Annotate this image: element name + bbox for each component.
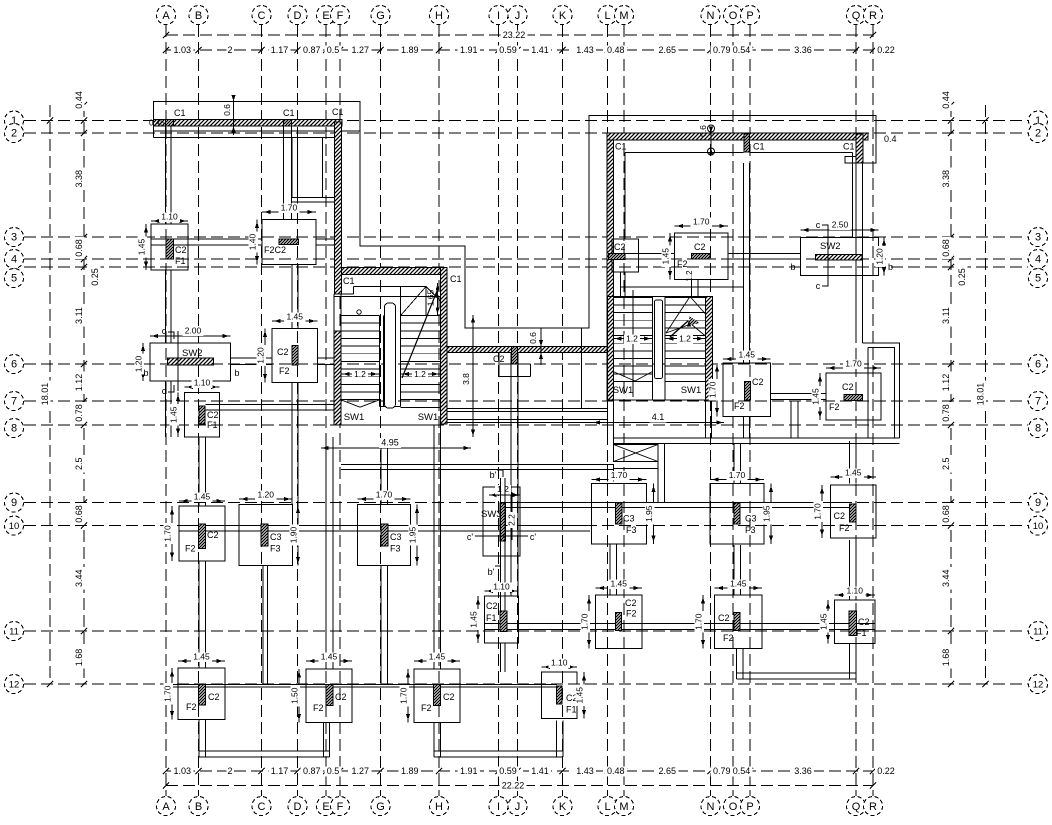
footing U2 bottom mid xyxy=(433,723,435,758)
dimension chain right overall 18.01 xyxy=(985,105,987,684)
svg-text:1.45: 1.45 xyxy=(661,248,671,265)
svg-text:c: c xyxy=(816,281,821,291)
svg-text:F1: F1 xyxy=(566,705,577,715)
svg-text:b: b xyxy=(790,262,795,272)
svg-text:2: 2 xyxy=(11,128,17,140)
svg-text:2.00: 2.00 xyxy=(185,326,202,336)
beam row3-4 right a xyxy=(614,253,675,255)
svg-text:SW1: SW1 xyxy=(681,385,702,396)
grid bubble 10 left xyxy=(5,516,24,535)
svg-text:1.70: 1.70 xyxy=(580,613,590,630)
stair break hatch patch right stairwell xyxy=(689,316,700,325)
grid bubble C bottom xyxy=(252,797,271,816)
grid line C xyxy=(261,25,263,796)
svg-text:1.10: 1.10 xyxy=(161,212,178,222)
svg-text:4.1: 4.1 xyxy=(652,412,665,422)
svg-text:K: K xyxy=(559,801,567,813)
svg-text:C2: C2 xyxy=(842,382,854,392)
svg-text:0.25: 0.25 xyxy=(957,268,967,286)
column C2/F2 at N rows6-7 xyxy=(723,363,771,417)
svg-text:F2: F2 xyxy=(313,703,324,713)
svg-text:4: 4 xyxy=(1035,254,1041,266)
svg-text:1.20: 1.20 xyxy=(875,248,885,265)
grid line K xyxy=(562,25,564,796)
svg-text:9: 9 xyxy=(1035,497,1041,509)
dim 1.65 stair top xyxy=(437,283,439,315)
svg-text:0.5: 0.5 xyxy=(327,766,340,776)
svg-text:C1: C1 xyxy=(174,108,186,118)
svg-text:F3: F3 xyxy=(270,544,281,554)
grid bubble R bottom xyxy=(864,797,883,816)
wall pair below M-N column xyxy=(691,280,693,297)
svg-text:1.45: 1.45 xyxy=(429,652,446,662)
svg-text:0.54: 0.54 xyxy=(733,766,751,776)
stair treads right stairwell east xyxy=(665,296,706,298)
grid line 7 xyxy=(24,400,1028,402)
column C1 hatch in band at D xyxy=(284,120,292,127)
dimension chain top segments xyxy=(166,49,873,51)
svg-text:0.78: 0.78 xyxy=(74,404,84,422)
grid line 5 xyxy=(24,266,1028,268)
svg-text:3.36: 3.36 xyxy=(794,45,812,55)
svg-text:1.17: 1.17 xyxy=(271,45,289,55)
svg-text:6: 6 xyxy=(11,359,17,371)
dimension chain right segments xyxy=(950,105,952,684)
stair treads left flight east xyxy=(401,315,441,317)
stair break chevrons right stairwell xyxy=(666,297,690,334)
stair bottom V right stairwell xyxy=(613,372,635,382)
svg-text:SW2: SW2 xyxy=(820,241,841,252)
svg-text:b: b xyxy=(234,368,239,378)
column C2/F2 at H row12 xyxy=(414,669,460,723)
beam row6-7 right xyxy=(771,393,827,395)
beam row3-4 F2C2 to wall xyxy=(316,238,335,240)
grid line 12 xyxy=(24,683,1028,685)
svg-text:b': b' xyxy=(490,470,497,480)
wall pair B xyxy=(198,437,200,506)
svg-text:1.45: 1.45 xyxy=(194,492,211,502)
svg-text:18.01: 18.01 xyxy=(976,383,986,406)
wall pair below C2 col at L/M xyxy=(620,272,622,297)
svg-text:22.22: 22.22 xyxy=(502,781,525,791)
svg-text:C1: C1 xyxy=(753,142,765,152)
dim 1.2 right stair east xyxy=(665,338,706,340)
svg-text:C1: C1 xyxy=(615,142,627,152)
grid bubble D top xyxy=(288,6,307,25)
wall pair A xyxy=(165,126,167,224)
svg-text:1.70: 1.70 xyxy=(708,381,718,398)
grid bubble J bottom xyxy=(508,797,527,816)
beam row9 strip right xyxy=(505,502,850,504)
svg-text:1.12: 1.12 xyxy=(941,374,951,392)
svg-text:b: b xyxy=(888,262,893,272)
column C2/F2 at L/M row11 xyxy=(596,595,643,649)
svg-text:C1: C1 xyxy=(332,107,344,117)
svg-text:3: 3 xyxy=(11,232,17,244)
svg-text:2.50: 2.50 xyxy=(832,220,849,230)
svg-text:E: E xyxy=(322,801,329,813)
grid bubble 11 left xyxy=(5,622,24,641)
beam big row8 right xyxy=(614,437,900,439)
svg-text:3: 3 xyxy=(1035,232,1041,244)
svg-text:0.59: 0.59 xyxy=(499,45,517,55)
dimension chain left segments xyxy=(83,105,85,684)
svg-text:J: J xyxy=(515,801,521,813)
beam row12 strip xyxy=(166,684,557,686)
hatched wall vertical H xyxy=(441,268,448,425)
column C2/F2 at Q row9 xyxy=(831,485,877,538)
dim 1.2 left stair west xyxy=(341,373,380,375)
svg-text:3.44: 3.44 xyxy=(74,569,84,587)
svg-text:0.68: 0.68 xyxy=(74,505,84,523)
svg-text:I: I xyxy=(497,10,500,22)
grid bubble 4 right xyxy=(1029,250,1048,269)
svg-text:F2: F2 xyxy=(723,633,734,643)
svg-text:0.6: 0.6 xyxy=(222,104,232,116)
grid bubble 5 left xyxy=(5,269,24,288)
grid bubble 1 right xyxy=(1029,111,1048,130)
column C2/F1 at Q row11 xyxy=(835,600,876,644)
grid bubble 7 left xyxy=(5,392,24,411)
svg-text:F1: F1 xyxy=(486,613,497,623)
svg-text:0.6: 0.6 xyxy=(528,332,538,344)
stair break X left stairwell xyxy=(401,287,427,316)
svg-text:0.48: 0.48 xyxy=(607,45,625,55)
hatched wall vertical E/F stair part xyxy=(334,331,341,425)
wall line below row6 wall xyxy=(581,328,583,409)
svg-text:1.45: 1.45 xyxy=(137,238,147,255)
svg-text:1.68: 1.68 xyxy=(941,649,951,667)
svg-text:A: A xyxy=(162,801,170,813)
svg-text:F2: F2 xyxy=(829,402,840,412)
svg-text:3.38: 3.38 xyxy=(941,170,951,188)
svg-text:L: L xyxy=(604,10,610,22)
svg-text:1.70: 1.70 xyxy=(163,525,173,542)
svg-text:F3: F3 xyxy=(745,525,756,535)
svg-text:c: c xyxy=(162,326,167,336)
dim 3.8 stair courtyard xyxy=(472,315,474,437)
svg-text:18.01: 18.01 xyxy=(40,383,50,406)
grid bubble 6 right xyxy=(1029,355,1048,374)
svg-text:C3: C3 xyxy=(390,532,402,542)
dim 0.6 right band at N xyxy=(710,127,712,152)
grid line 8 xyxy=(24,424,1028,426)
right jut outline xyxy=(863,343,900,438)
svg-text:1.70: 1.70 xyxy=(163,685,173,702)
wall pair D xyxy=(283,126,285,220)
grid line I xyxy=(498,25,500,796)
svg-text:1.45: 1.45 xyxy=(610,579,627,589)
grid line L xyxy=(607,25,609,796)
dim 4.1 row8 right xyxy=(593,422,725,424)
svg-text:C1: C1 xyxy=(843,142,855,152)
grid line 1 xyxy=(24,120,1028,122)
dimension chain left overall 18.01 xyxy=(49,105,51,684)
beam row3-4 left xyxy=(151,238,262,240)
svg-text:3.36: 3.36 xyxy=(794,766,812,776)
wall pair between N and Q cols rows7-8 xyxy=(790,401,792,439)
svg-text:C: C xyxy=(258,801,266,813)
hatched wall top band right block L-Q xyxy=(607,133,868,140)
wall pair L lower xyxy=(607,400,609,445)
beam row6 left a xyxy=(231,357,273,359)
svg-text:F2: F2 xyxy=(677,259,688,269)
svg-text:9: 9 xyxy=(11,497,17,509)
svg-text:F1: F1 xyxy=(175,256,186,266)
grid line G xyxy=(380,25,382,796)
svg-text:0.87: 0.87 xyxy=(303,766,321,776)
column C1 hatch N top xyxy=(744,134,750,152)
hatched wall top band A-F xyxy=(154,120,343,127)
svg-text:1 2: 1 2 xyxy=(497,484,509,494)
svg-text:P: P xyxy=(746,10,753,22)
svg-text:J: J xyxy=(515,10,521,22)
svg-text:G: G xyxy=(376,10,385,22)
svg-text:11: 11 xyxy=(1033,627,1043,638)
svg-text:F2: F2 xyxy=(279,366,290,376)
svg-text:0.54: 0.54 xyxy=(733,45,751,55)
wall pair stair mid right xyxy=(705,400,707,438)
svg-text:1.27: 1.27 xyxy=(351,45,369,55)
svg-text:1.41: 1.41 xyxy=(531,45,549,55)
svg-text:11: 11 xyxy=(9,627,19,638)
svg-text:C2: C2 xyxy=(277,347,289,357)
beam row9 strip left xyxy=(179,525,590,527)
svg-text:1.95: 1.95 xyxy=(644,505,654,522)
svg-text:0.68: 0.68 xyxy=(74,239,84,257)
hatched wall vertical E/F xyxy=(335,122,342,294)
grid line A xyxy=(165,25,167,796)
svg-text:1.70: 1.70 xyxy=(693,217,710,227)
dim 0.6 top band at D xyxy=(233,96,235,135)
svg-text:0.22: 0.22 xyxy=(877,766,895,776)
svg-text:6: 6 xyxy=(1035,359,1041,371)
svg-text:0.44: 0.44 xyxy=(941,91,951,109)
svg-text:1.45: 1.45 xyxy=(469,611,479,628)
grid bubble H bottom xyxy=(430,797,449,816)
svg-text:3.44: 3.44 xyxy=(941,569,951,587)
svg-text:1.2: 1.2 xyxy=(414,369,426,379)
hatched wall row6 mid xyxy=(447,347,608,353)
stairwell left walls xyxy=(334,297,441,426)
column C2/F1 at I/J row11 xyxy=(485,596,519,643)
grid bubble A top xyxy=(157,6,176,25)
grid bubble F top xyxy=(331,6,350,25)
svg-text:1.45: 1.45 xyxy=(169,406,179,423)
dim 1.2 left stair east xyxy=(401,373,441,375)
grid line E xyxy=(325,25,327,796)
svg-text:1.45: 1.45 xyxy=(321,652,338,662)
dimension chain bottom segments xyxy=(166,770,873,772)
beam row8-9 mid xyxy=(341,464,614,466)
grid bubble K bottom xyxy=(553,797,572,816)
svg-text:1.50: 1.50 xyxy=(290,687,300,704)
svg-text:2.65: 2.65 xyxy=(658,766,676,776)
svg-text:2: 2 xyxy=(227,45,232,55)
svg-text:1.91: 1.91 xyxy=(460,766,478,776)
svg-text:A: A xyxy=(162,10,170,22)
svg-text:1.17: 1.17 xyxy=(271,766,289,776)
crossed box below L xyxy=(614,445,659,462)
svg-text:L: L xyxy=(604,801,610,813)
svg-text:4: 4 xyxy=(11,254,17,266)
svg-text:0.78: 0.78 xyxy=(941,404,951,422)
grid line 6 xyxy=(24,363,1028,365)
svg-text:7: 7 xyxy=(1035,396,1041,408)
shear wall SW2 right xyxy=(801,238,879,276)
grid bubble B bottom xyxy=(189,797,208,816)
stair top landing outline left stairwell xyxy=(354,286,427,288)
grid bubble O bottom xyxy=(724,797,743,816)
svg-text:1.2: 1.2 xyxy=(685,270,694,282)
footing U3 bottom right xyxy=(736,649,738,680)
svg-text:R: R xyxy=(869,801,877,813)
grid bubble 3 left xyxy=(5,228,24,247)
grid bubble H top xyxy=(430,6,449,25)
svg-text:C2: C2 xyxy=(486,601,498,611)
grid bubble Q top xyxy=(847,6,866,25)
grid bubble I bottom xyxy=(489,797,508,816)
grid bubble E bottom xyxy=(317,797,336,816)
wall pair Q xyxy=(855,163,857,343)
wall pair I/J xyxy=(510,353,512,597)
svg-text:C2: C2 xyxy=(208,692,220,702)
svg-text:R: R xyxy=(869,10,877,22)
grid bubble N bottom xyxy=(701,797,720,816)
column C2/F2 at C-D row6 xyxy=(272,329,318,383)
grid line M xyxy=(623,25,625,796)
column C2/F2 at B row12 xyxy=(178,668,225,720)
column C1 hatch in band at A xyxy=(166,120,174,127)
svg-text:C2: C2 xyxy=(694,242,706,252)
svg-text:C3: C3 xyxy=(745,514,757,524)
beam between stairwells upper xyxy=(447,408,608,410)
grid bubble 10 right xyxy=(1029,516,1048,535)
svg-text:0.22: 0.22 xyxy=(877,45,895,55)
svg-text:SW2: SW2 xyxy=(182,348,203,359)
svg-text:10: 10 xyxy=(1033,521,1044,532)
svg-text:F1: F1 xyxy=(207,420,218,430)
svg-text:C3: C3 xyxy=(623,514,635,524)
svg-text:3.38: 3.38 xyxy=(74,170,84,188)
wall pair below band at D-E xyxy=(291,138,293,198)
grid line J xyxy=(517,25,519,796)
svg-text:10: 10 xyxy=(9,521,20,532)
inner line right block top room xyxy=(625,152,744,154)
grid bubble G top xyxy=(371,6,390,25)
svg-text:1.45: 1.45 xyxy=(730,579,747,589)
svg-text:1.10: 1.10 xyxy=(194,378,211,388)
wall pair N/P xyxy=(743,163,745,363)
svg-text:SW1: SW1 xyxy=(613,385,634,396)
svg-text:1.12: 1.12 xyxy=(74,374,84,392)
beam row3-4 right b xyxy=(728,253,801,255)
grid bubble 7 right xyxy=(1029,392,1048,411)
svg-text:SW1: SW1 xyxy=(418,412,439,423)
step outline below row6 wall at I/J xyxy=(498,353,500,377)
svg-text:G: G xyxy=(376,801,385,813)
grid bubble 3 right xyxy=(1029,228,1048,247)
svg-text:0.68: 0.68 xyxy=(941,505,951,523)
footing U1 bottom left xyxy=(198,720,200,758)
stair divider left stairwell xyxy=(379,316,381,407)
svg-text:B: B xyxy=(195,10,202,22)
grid bubble 1 left xyxy=(5,111,24,130)
svg-text:7: 7 xyxy=(11,396,17,408)
hatched wall right stair right xyxy=(706,297,713,401)
stair bottom V left xyxy=(341,400,360,407)
stair direction arrow right stairwell xyxy=(670,321,688,337)
svg-text:C2: C2 xyxy=(335,692,347,702)
dimension chain top overall 23.22 xyxy=(166,34,873,36)
svg-text:0.25: 0.25 xyxy=(90,268,100,286)
svg-text:Q: Q xyxy=(852,10,861,22)
column C2/F2 at M-N rows3-4 xyxy=(675,233,729,280)
svg-text:F2C2: F2C2 xyxy=(264,245,286,255)
stair section line right stairwell xyxy=(632,290,634,397)
svg-text:C2: C2 xyxy=(443,692,455,702)
svg-text:0.79: 0.79 xyxy=(713,766,731,776)
svg-text:1.68: 1.68 xyxy=(74,649,84,667)
grid bubble 2 left xyxy=(5,124,24,143)
svg-text:1.70: 1.70 xyxy=(694,613,704,630)
grid bubble B top xyxy=(189,6,208,25)
wall line below band at E xyxy=(322,138,324,198)
stair treads left flight west xyxy=(341,315,380,317)
svg-text:2: 2 xyxy=(227,766,232,776)
svg-text:SW1: SW1 xyxy=(344,412,365,423)
svg-text:1.95: 1.95 xyxy=(762,505,772,522)
wall pair right of crossed box xyxy=(657,444,659,504)
svg-text:1.27: 1.27 xyxy=(351,766,369,776)
svg-text:C1: C1 xyxy=(343,276,355,286)
svg-text:0.44: 0.44 xyxy=(74,91,84,109)
svg-text:0.45: 0.45 xyxy=(149,119,165,128)
svg-text:c: c xyxy=(816,220,821,230)
svg-text:1.45: 1.45 xyxy=(738,350,755,360)
dim 0.6 row6 wall xyxy=(540,328,542,365)
svg-text:C3: C3 xyxy=(270,532,282,542)
svg-text:F3: F3 xyxy=(390,544,401,554)
grid line 11 xyxy=(24,630,1028,632)
svg-text:F: F xyxy=(337,10,344,22)
svg-text:1.45: 1.45 xyxy=(286,312,303,322)
svg-text:C2: C2 xyxy=(718,613,730,623)
svg-text:C1: C1 xyxy=(283,108,295,118)
svg-text:1.43: 1.43 xyxy=(576,766,594,776)
grid bubble M bottom xyxy=(615,797,634,816)
svg-text:D: D xyxy=(294,10,302,22)
svg-text:0.4: 0.4 xyxy=(884,134,897,144)
grid bubble C top xyxy=(252,6,271,25)
svg-text:I: I xyxy=(497,801,500,813)
svg-text:C: C xyxy=(258,10,266,22)
grid line 3 xyxy=(24,236,1028,238)
hatched wall vertical Q top xyxy=(856,134,863,163)
grid bubble K top xyxy=(553,6,572,25)
grid bubble 8 right xyxy=(1029,419,1048,438)
svg-text:K: K xyxy=(559,10,567,22)
svg-text:O: O xyxy=(729,801,738,813)
column C3/F3 at C row9 xyxy=(239,505,293,566)
grid bubble Q bottom xyxy=(847,797,866,816)
svg-text:1.10: 1.10 xyxy=(551,658,568,668)
svg-text:b: b xyxy=(143,368,148,378)
room bottom line above right stairwell xyxy=(621,286,744,288)
svg-text:F2: F2 xyxy=(734,401,745,411)
svg-text:0.87: 0.87 xyxy=(303,45,321,55)
svg-text:1.10: 1.10 xyxy=(846,586,863,596)
